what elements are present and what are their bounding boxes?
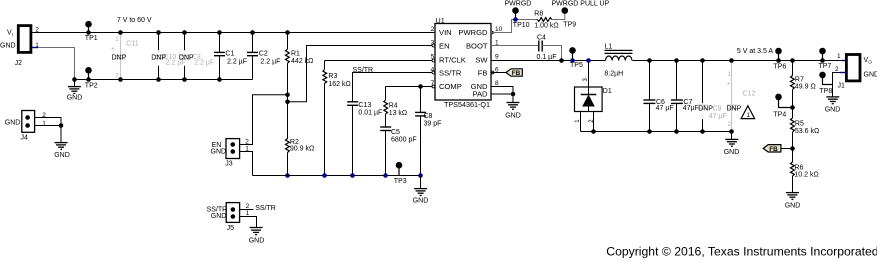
svg-text:J3: J3 xyxy=(225,160,233,167)
resistor R7 xyxy=(790,58,816,107)
svg-text:J2: J2 xyxy=(15,60,23,67)
svg-text:1: 1 xyxy=(246,210,250,217)
test point TP2 xyxy=(85,67,98,90)
resistor R1 xyxy=(285,30,313,102)
svg-text:1.00 kΩ: 1.00 kΩ xyxy=(534,22,558,29)
svg-text:GND: GND xyxy=(413,197,429,204)
wire J5 pin2 stub xyxy=(240,209,254,211)
svg-text:GND: GND xyxy=(211,213,227,220)
svg-text:TP4: TP4 xyxy=(773,111,786,118)
wire output bottom bus xyxy=(581,131,732,133)
svg-text:GND: GND xyxy=(785,202,801,209)
connector J1 xyxy=(835,53,877,89)
svg-text:DNP: DNP xyxy=(112,55,127,62)
svg-text:RT/CLK: RT/CLK xyxy=(439,55,466,64)
resistor R6 xyxy=(791,149,819,193)
svg-text:R5: R5 xyxy=(795,120,804,127)
wire RT/CLK xyxy=(325,60,436,62)
resistor R8 xyxy=(534,11,558,30)
svg-text:2: 2 xyxy=(431,26,435,33)
svg-text:1: 1 xyxy=(837,53,841,60)
test point TP1 xyxy=(85,21,98,42)
capacitor C1 xyxy=(214,30,247,82)
svg-text:GND: GND xyxy=(505,112,521,119)
svg-text:9: 9 xyxy=(495,54,499,61)
svg-text:BOOT: BOOT xyxy=(466,41,488,50)
capacitor C6 xyxy=(643,58,673,134)
svg-text:+: + xyxy=(111,46,115,53)
svg-text:TP1: TP1 xyxy=(85,35,98,42)
svg-text:53.6 kΩ: 53.6 kΩ xyxy=(795,128,819,135)
svg-text:O: O xyxy=(868,60,872,65)
svg-text:R7: R7 xyxy=(795,76,804,83)
svg-text:2.2 µF: 2.2 µF xyxy=(227,59,247,66)
wire J5 pin1 to gnd xyxy=(240,217,257,228)
svg-text:R1: R1 xyxy=(291,51,300,58)
wire EN pin to divider xyxy=(288,46,436,102)
svg-text:L1: L1 xyxy=(605,44,613,51)
svg-text:GND: GND xyxy=(211,148,227,155)
svg-text:VIN: VIN xyxy=(439,28,452,37)
svg-text:SW: SW xyxy=(475,55,488,64)
svg-text:TP3: TP3 xyxy=(394,178,407,185)
test point TP9 xyxy=(562,7,577,28)
svg-text:6800 pF: 6800 pF xyxy=(391,137,417,144)
resistor R4 xyxy=(384,87,407,128)
svg-text:10: 10 xyxy=(495,26,503,33)
svg-text:1: 1 xyxy=(42,121,46,128)
svg-text:8: 8 xyxy=(495,80,499,87)
note triangle 1 xyxy=(741,106,755,119)
resistor R3 xyxy=(322,61,351,178)
svg-text:FB: FB xyxy=(478,68,488,77)
svg-text:R8: R8 xyxy=(534,11,543,18)
svg-text:TP7: TP7 xyxy=(819,63,832,70)
svg-text:C9: C9 xyxy=(713,106,722,113)
svg-text:R3: R3 xyxy=(328,73,337,80)
wire FB pin xyxy=(491,72,506,74)
test point TP10 xyxy=(512,7,529,29)
svg-text:SS/TR: SS/TR xyxy=(255,205,276,212)
svg-text:R4: R4 xyxy=(389,102,398,109)
IC U1 TPS54361-Q1 xyxy=(431,16,503,109)
svg-text:C2: C2 xyxy=(259,51,268,58)
svg-text:7 V to 60 V: 7 V to 60 V xyxy=(117,17,152,24)
capacitor C7 xyxy=(671,58,699,134)
svg-text:EN: EN xyxy=(439,41,450,50)
svg-text:10.2 kΩ: 10.2 kΩ xyxy=(794,172,818,179)
wire J3 pin1 to bus xyxy=(240,152,253,176)
ground output bus xyxy=(724,132,740,157)
svg-text:R6: R6 xyxy=(794,164,803,171)
capacitor C5 xyxy=(380,127,416,178)
svg-text:TP2: TP2 xyxy=(85,83,98,90)
svg-text:GND: GND xyxy=(0,43,16,50)
svg-text:8.2µH: 8.2µH xyxy=(604,70,623,77)
svg-text:5 V at 3.5 A: 5 V at 3.5 A xyxy=(737,48,774,55)
svg-text:C8: C8 xyxy=(424,113,433,120)
connector J2 xyxy=(0,26,39,67)
wire BOOT xyxy=(491,45,539,47)
test point TP3 xyxy=(394,162,407,185)
svg-text:C4: C4 xyxy=(537,35,546,42)
svg-text:TP5: TP5 xyxy=(570,62,583,69)
svg-text:GND: GND xyxy=(54,152,70,159)
connector J5 xyxy=(207,203,250,233)
svg-text:Copyright © 2016, Texas Instru: Copyright © 2016, Texas Instruments Inco… xyxy=(606,245,877,259)
node EN junctions xyxy=(285,93,290,98)
svg-text:TP8: TP8 xyxy=(819,88,832,95)
wire J4 pins xyxy=(35,118,61,126)
svg-text:PWRGD PULL UP: PWRGD PULL UP xyxy=(552,0,610,7)
svg-text:DNP: DNP xyxy=(698,106,713,113)
net flag FB at IC xyxy=(506,69,522,77)
wire VIN rail xyxy=(32,32,436,34)
svg-text:TP6: TP6 xyxy=(773,63,786,70)
svg-text:2.2 µF: 2.2 µF xyxy=(194,59,214,66)
wire C4 to SW xyxy=(542,46,561,61)
svg-text:C5: C5 xyxy=(391,129,400,136)
junction input gnd xyxy=(72,77,77,82)
wire SS/TR xyxy=(353,73,436,102)
svg-text:47 µF: 47 µF xyxy=(709,113,727,120)
svg-text:GND: GND xyxy=(5,119,21,126)
svg-text:SS/TR: SS/TR xyxy=(353,67,374,74)
capacitor C8 xyxy=(415,87,441,178)
svg-text:PWRGD: PWRGD xyxy=(458,28,488,37)
svg-text:FB: FB xyxy=(512,70,521,77)
resistor R2 xyxy=(285,102,314,178)
wire SW rail xyxy=(491,60,606,62)
capacitor C10 (DNP) xyxy=(151,30,185,82)
svg-text:TPS54361-Q1: TPS54361-Q1 xyxy=(444,100,490,109)
svg-text:1: 1 xyxy=(747,112,751,119)
svg-text:SS/TR: SS/TR xyxy=(439,68,462,77)
wire IC GND/PAD xyxy=(491,87,513,103)
svg-text:PWRGD: PWRGD xyxy=(505,0,532,7)
svg-text:J4: J4 xyxy=(21,135,29,142)
svg-text:162 kΩ: 162 kΩ xyxy=(328,81,350,88)
wire R8 to TP9 xyxy=(552,13,565,19)
svg-text:C11: C11 xyxy=(126,41,138,48)
test point TP4 xyxy=(773,94,794,119)
svg-text:I: I xyxy=(12,32,13,37)
test point TP7 xyxy=(819,48,832,70)
ground J5 xyxy=(249,228,265,245)
svg-text:C13: C13 xyxy=(358,102,371,109)
svg-text:TP10: TP10 xyxy=(513,22,530,29)
svg-text:U1: U1 xyxy=(436,16,445,25)
svg-text:2: 2 xyxy=(246,203,250,210)
svg-text:442 kΩ: 442 kΩ xyxy=(291,58,313,65)
ground input xyxy=(67,80,83,102)
svg-text:COMP: COMP xyxy=(439,82,462,91)
svg-text:J1: J1 xyxy=(838,82,846,89)
wire COMP xyxy=(386,86,436,88)
ground J1 xyxy=(825,97,841,114)
svg-text:DNP: DNP xyxy=(727,106,742,113)
capacitor C11 (DNP) xyxy=(111,30,139,82)
ground IC xyxy=(505,103,521,120)
svg-text:47 µF: 47 µF xyxy=(656,105,674,112)
svg-text:D1: D1 xyxy=(603,88,612,95)
capacitor C12 (DNP) xyxy=(727,58,756,134)
wire input bottom bus xyxy=(75,79,253,81)
connector J3 xyxy=(211,139,250,168)
ground divider xyxy=(785,193,801,210)
resistor R5 xyxy=(791,108,820,149)
pin markers U1 xyxy=(491,31,495,34)
capacitor C4 xyxy=(537,35,557,61)
svg-text:49.9 Ω: 49.9 Ω xyxy=(795,83,816,90)
svg-text:DNP: DNP xyxy=(151,55,166,62)
svg-text:0.1 µF: 0.1 µF xyxy=(537,54,557,61)
capacitor C13 xyxy=(347,102,382,178)
diode D1 xyxy=(575,58,612,131)
capacitor C9 (DNP) xyxy=(697,58,726,134)
wire J3 pin2 to EN node xyxy=(240,95,288,145)
wire output rail xyxy=(633,60,843,62)
svg-text:90.9 kΩ: 90.9 kΩ xyxy=(290,146,314,153)
wire J2 pin1 to input GND xyxy=(38,48,75,80)
svg-text:GND: GND xyxy=(67,95,83,102)
svg-text:47µF: 47µF xyxy=(683,105,699,112)
svg-text:13 kΩ: 13 kΩ xyxy=(389,110,407,117)
svg-text:GND: GND xyxy=(825,107,841,114)
test point TP6 xyxy=(773,48,786,71)
svg-text:C1: C1 xyxy=(225,51,234,58)
ground middle bus xyxy=(413,176,429,205)
test point TP8 xyxy=(819,72,832,95)
net flag FB at divider xyxy=(763,145,795,153)
svg-text:0.01 µF: 0.01 µF xyxy=(358,110,382,117)
capacitor C3 (DNP) xyxy=(179,30,214,82)
svg-text:2: 2 xyxy=(835,66,839,73)
inductor L1 xyxy=(604,44,632,78)
connector J4 xyxy=(5,111,47,142)
svg-text:C12: C12 xyxy=(743,90,756,97)
svg-text:PAD: PAD xyxy=(472,89,488,98)
svg-text:GND: GND xyxy=(724,149,740,156)
capacitor C2 xyxy=(247,30,280,79)
svg-text:J5: J5 xyxy=(227,225,235,232)
svg-text:2.2 µF: 2.2 µF xyxy=(260,59,280,66)
wire PWRGD xyxy=(491,20,537,33)
svg-text:TP9: TP9 xyxy=(563,22,576,29)
svg-text:DNP: DNP xyxy=(179,55,194,62)
wire J1 pin2 to gnd xyxy=(840,72,846,74)
svg-text:FB: FB xyxy=(769,146,778,153)
svg-text:+: + xyxy=(727,80,731,87)
ground J4 xyxy=(54,143,70,160)
svg-text:39 pF: 39 pF xyxy=(424,120,442,127)
svg-text:GND: GND xyxy=(864,72,877,79)
svg-text:GND: GND xyxy=(249,237,265,244)
test point TP5 xyxy=(569,47,583,69)
wire middle GND bus xyxy=(253,175,421,177)
